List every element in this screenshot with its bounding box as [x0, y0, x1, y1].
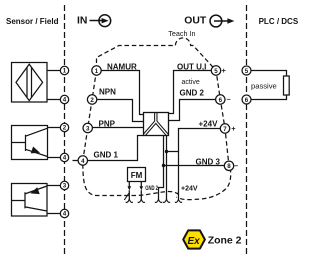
svg-text:OUT U,I: OUT U,I — [177, 63, 206, 72]
svg-text:8: 8 — [227, 163, 231, 170]
svg-text:3: 3 — [86, 125, 90, 132]
svg-text:4: 4 — [81, 158, 85, 165]
svg-text:1: 1 — [63, 68, 67, 75]
svg-text:2: 2 — [63, 125, 67, 132]
svg-text:GND 1: GND 1 — [94, 150, 119, 159]
svg-text:active: active — [182, 79, 200, 86]
svg-text:2: 2 — [90, 97, 94, 104]
svg-text:6: 6 — [245, 97, 249, 104]
svg-text:PNP: PNP — [99, 120, 116, 129]
svg-text:4: 4 — [63, 97, 67, 104]
svg-text:+24V: +24V — [199, 120, 219, 129]
svg-text:OUT: OUT — [184, 15, 207, 26]
svg-text:–: – — [227, 95, 231, 104]
svg-text:6: 6 — [219, 97, 223, 104]
svg-text:GND 2: GND 2 — [180, 89, 205, 98]
svg-text:GND 2: GND 2 — [145, 185, 158, 192]
svg-text:5: 5 — [214, 68, 218, 75]
svg-text:PLC / DCS: PLC / DCS — [259, 17, 299, 26]
svg-text:+24V: +24V — [181, 185, 198, 192]
svg-text:–: – — [234, 161, 238, 170]
svg-text:+: + — [222, 66, 227, 75]
svg-text:Teach In: Teach In — [168, 29, 195, 38]
svg-text:5: 5 — [245, 68, 249, 75]
svg-text:Ex: Ex — [187, 236, 200, 247]
svg-text:GND 3: GND 3 — [196, 158, 221, 167]
svg-text:NAMUR: NAMUR — [107, 63, 137, 72]
svg-text:passive: passive — [251, 82, 277, 91]
svg-text:IN: IN — [77, 16, 87, 27]
svg-text:+: + — [231, 124, 236, 133]
svg-text:Sensor / Field: Sensor / Field — [6, 17, 59, 26]
svg-text:3: 3 — [63, 183, 67, 190]
svg-text:NPN: NPN — [99, 87, 116, 96]
svg-text:FM: FM — [131, 171, 143, 180]
svg-text:7: 7 — [223, 126, 227, 133]
svg-text:Zone 2: Zone 2 — [208, 234, 242, 246]
svg-text:4: 4 — [63, 211, 67, 218]
svg-text:4: 4 — [63, 155, 67, 162]
svg-text:1: 1 — [95, 68, 99, 75]
